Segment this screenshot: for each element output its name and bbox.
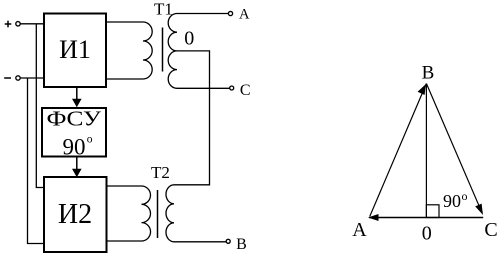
- block И1: [44, 14, 106, 88]
- arrow И1 to ФСУ: [72, 88, 82, 108]
- wire center tap to T2 secondary: [174, 51, 210, 185]
- phasor vector B to C: [426, 84, 482, 213]
- phasor arrowhead at C: [475, 204, 483, 215]
- block ФСУ: [42, 107, 106, 160]
- svg-text:o: o: [87, 133, 93, 145]
- svg-text:o: o: [462, 189, 468, 203]
- phasor vector A to B: [370, 84, 427, 217]
- svg-text:И2: И2: [58, 199, 92, 230]
- terminal A circle: [228, 11, 232, 15]
- transformer T2 core: [157, 190, 159, 238]
- svg-text:T2: T2: [151, 163, 170, 182]
- terminal - circle: [16, 76, 20, 80]
- svg-text:90: 90: [443, 191, 461, 211]
- terminal + circle: [16, 22, 20, 26]
- svg-text:В: В: [422, 63, 435, 84]
- arrow ФСУ to И2: [72, 157, 82, 178]
- wire + to И1: [20, 23, 44, 25]
- wire - to И1: [20, 77, 44, 79]
- svg-text:90: 90: [63, 135, 86, 160]
- wire branch from - down to И2: [28, 78, 45, 244]
- svg-text:И1: И1: [59, 35, 91, 64]
- terminal B circle: [226, 239, 230, 243]
- svg-text:0: 0: [422, 222, 432, 244]
- transformer T2 secondary winding with wire to B: [166, 185, 226, 242]
- terminal - sign: [4, 77, 11, 79]
- phasor base line A-0-C: [369, 217, 483, 219]
- svg-text:А: А: [239, 6, 250, 22]
- svg-text:T1: T1: [154, 0, 173, 19]
- transformer T1 primary winding: [106, 22, 152, 79]
- phasor vertical line 0 to B: [425, 84, 427, 218]
- svg-text:В: В: [236, 236, 247, 253]
- transformer T2 primary winding: [106, 186, 151, 241]
- svg-text:ФСУ: ФСУ: [47, 107, 102, 131]
- terminal + sign: [5, 21, 12, 28]
- right angle square: [426, 205, 439, 218]
- block И2: [44, 177, 107, 252]
- transformer T1 core: [162, 28, 164, 72]
- phasor arrowhead at A pointing left: [368, 214, 379, 221]
- svg-text:С: С: [484, 219, 497, 241]
- transformer T1 secondary winding with wires to A and C: [168, 14, 230, 89]
- terminal C circle: [230, 86, 234, 90]
- svg-text:А: А: [352, 219, 367, 241]
- svg-text:С: С: [240, 82, 251, 99]
- phasor arrowhead at B: [418, 84, 426, 95]
- svg-text:0: 0: [184, 28, 194, 50]
- wire branch from + down to И2: [36, 24, 44, 188]
